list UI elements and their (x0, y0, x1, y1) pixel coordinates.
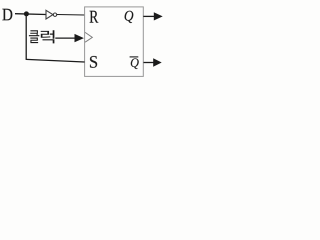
clock input chevron (85, 32, 92, 42)
output arrow Q (143, 12, 162, 20)
clock wire with arrowhead (55, 34, 84, 42)
output label Q-bar (130, 57, 139, 69)
output label Q (125, 11, 134, 23)
output arrow Q-bar (144, 58, 162, 66)
wire D to inverter input (15, 13, 46, 16)
clock label 클럭 (29, 30, 55, 43)
inverter U1 (46, 10, 57, 19)
wire inverter output to R input (57, 14, 85, 17)
wire junction down (25, 14, 27, 60)
junction dot (24, 11, 29, 16)
pin label R (90, 11, 99, 23)
latch U2 box (85, 7, 144, 77)
input label D (2, 9, 12, 20)
pin label S (90, 56, 97, 68)
wire to S input (26, 59, 84, 62)
